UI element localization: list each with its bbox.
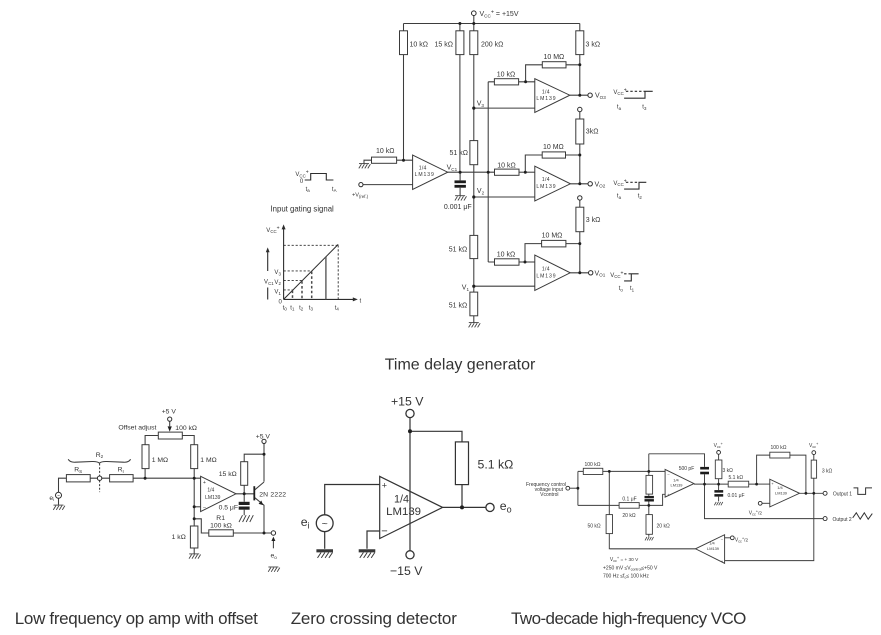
svg-text:LM139: LM139 bbox=[671, 483, 683, 488]
svg-text:20 kΩ: 20 kΩ bbox=[622, 513, 635, 519]
svg-text:VO3: VO3 bbox=[595, 93, 606, 100]
svg-text:tA: tA bbox=[332, 187, 337, 193]
svg-text:RS: RS bbox=[74, 467, 82, 474]
svg-text:+5 V: +5 V bbox=[256, 433, 271, 440]
svg-text:t4: t4 bbox=[335, 305, 340, 311]
svg-text:51 kΩ: 51 kΩ bbox=[449, 247, 467, 254]
svg-text:500 pF: 500 pF bbox=[679, 466, 695, 472]
svg-text:10 kΩ: 10 kΩ bbox=[376, 148, 394, 155]
svg-text:Time delay generator: Time delay generator bbox=[385, 356, 536, 373]
svg-text:10 kΩ: 10 kΩ bbox=[497, 251, 515, 258]
svg-text:RI: RI bbox=[118, 467, 124, 474]
svg-text:100 kΩ: 100 kΩ bbox=[585, 462, 601, 468]
svg-text:15 kΩ: 15 kΩ bbox=[219, 471, 237, 478]
svg-text:t0: t0 bbox=[283, 305, 288, 311]
svg-text:VC1: VC1 bbox=[447, 165, 458, 172]
svg-text:V1: V1 bbox=[462, 285, 470, 292]
svg-text:t2: t2 bbox=[638, 194, 643, 200]
svg-text:t1: t1 bbox=[290, 305, 295, 311]
svg-text:t2: t2 bbox=[299, 305, 304, 311]
svg-text:50 kΩ: 50 kΩ bbox=[587, 523, 600, 529]
svg-text:V3: V3 bbox=[477, 101, 485, 108]
svg-text:3 kΩ: 3 kΩ bbox=[586, 217, 601, 224]
svg-text:VO2: VO2 bbox=[595, 181, 606, 188]
svg-text:3 kΩ: 3 kΩ bbox=[586, 42, 601, 49]
svg-text:1/4: 1/4 bbox=[542, 89, 550, 95]
svg-text:VCC+: VCC+ bbox=[610, 270, 623, 279]
svg-text:VCC+: VCC+ bbox=[266, 225, 279, 234]
svg-text:15 kΩ: 15 kΩ bbox=[435, 42, 453, 49]
svg-text:1/4: 1/4 bbox=[542, 266, 550, 272]
svg-text:1/4: 1/4 bbox=[419, 165, 427, 171]
svg-text:700 Hz ≤fo≤ 100 kHz: 700 Hz ≤fo≤ 100 kHz bbox=[603, 574, 649, 580]
svg-text:0.1 μF: 0.1 μF bbox=[622, 496, 636, 502]
svg-text:Low frequency op amp with offs: Low frequency op amp with offset bbox=[15, 609, 258, 628]
svg-text:51 kΩ: 51 kΩ bbox=[449, 302, 467, 309]
svg-text:10 MΩ: 10 MΩ bbox=[542, 232, 563, 239]
svg-text:10 MΩ: 10 MΩ bbox=[544, 54, 565, 61]
svg-text:1/4: 1/4 bbox=[207, 487, 214, 493]
svg-text:100 kΩ: 100 kΩ bbox=[210, 522, 232, 529]
svg-text:+V(ref.): +V(ref.) bbox=[352, 193, 369, 199]
svg-text:1/4: 1/4 bbox=[709, 541, 715, 546]
svg-text:−15 V: −15 V bbox=[390, 564, 423, 578]
svg-text:Vcc+/2: Vcc+/2 bbox=[749, 508, 763, 516]
svg-text:~: ~ bbox=[57, 494, 60, 500]
svg-text:VCC+: VCC+ bbox=[613, 178, 626, 187]
svg-text:200 kΩ: 200 kΩ bbox=[481, 42, 503, 49]
svg-text:LM139: LM139 bbox=[386, 506, 421, 518]
svg-text:V2: V2 bbox=[477, 188, 485, 195]
svg-text:20 kΩ: 20 kΩ bbox=[657, 523, 670, 529]
svg-text:Vcc+: Vcc+ bbox=[809, 441, 819, 449]
svg-text:LM139: LM139 bbox=[536, 273, 556, 279]
svg-text:Vcontrol: Vcontrol bbox=[540, 492, 558, 498]
svg-text:+15 V: +15 V bbox=[391, 394, 424, 408]
svg-text:Input gating signal: Input gating signal bbox=[271, 205, 335, 214]
svg-text:Vcc+: Vcc+ bbox=[714, 441, 724, 449]
svg-text:t: t bbox=[360, 298, 362, 304]
svg-text:1/4: 1/4 bbox=[394, 493, 409, 505]
svg-text:51 kΩ: 51 kΩ bbox=[450, 150, 468, 157]
svg-text:V2: V2 bbox=[274, 280, 281, 286]
svg-text:LM139: LM139 bbox=[775, 491, 787, 496]
svg-text:Zero crossing detector: Zero crossing detector bbox=[291, 609, 458, 628]
svg-text:5.1 kΩ: 5.1 kΩ bbox=[729, 475, 744, 481]
svg-text:LM139: LM139 bbox=[707, 546, 719, 551]
svg-text:Output 2: Output 2 bbox=[833, 517, 852, 523]
svg-text:10 kΩ: 10 kΩ bbox=[410, 42, 428, 49]
svg-text:100 kΩ: 100 kΩ bbox=[175, 425, 197, 432]
svg-text:LM139: LM139 bbox=[205, 495, 221, 501]
svg-text:+: + bbox=[771, 481, 774, 486]
svg-text:1/4: 1/4 bbox=[542, 177, 550, 183]
svg-text:eo: eo bbox=[500, 499, 512, 515]
svg-text:LM139: LM139 bbox=[536, 96, 556, 102]
svg-text:ta: ta bbox=[306, 187, 311, 193]
svg-text:V3: V3 bbox=[274, 270, 281, 276]
svg-text:eo: eo bbox=[271, 553, 278, 560]
svg-text:ei: ei bbox=[301, 515, 310, 531]
svg-text:VO1: VO1 bbox=[595, 270, 606, 277]
svg-text:Vcc+/2: Vcc+/2 bbox=[735, 535, 749, 543]
svg-text:VC1: VC1 bbox=[264, 280, 274, 286]
svg-text:Output 1: Output 1 bbox=[833, 492, 852, 498]
svg-text:VCC+: VCC+ bbox=[295, 170, 308, 179]
svg-text:LM139: LM139 bbox=[536, 184, 556, 190]
svg-text:0.5 μF: 0.5 μF bbox=[219, 505, 238, 512]
svg-text:1/4: 1/4 bbox=[777, 485, 783, 490]
svg-text:1 kΩ: 1 kΩ bbox=[172, 534, 186, 541]
svg-text:R1: R1 bbox=[216, 515, 225, 522]
svg-text:–: – bbox=[721, 536, 724, 541]
svg-text:Two-decade high-frequency VCO: Two-decade high-frequency VCO bbox=[511, 609, 746, 628]
svg-text:3 kΩ: 3 kΩ bbox=[723, 468, 734, 474]
svg-text:ei: ei bbox=[49, 495, 54, 502]
svg-text:–: – bbox=[203, 505, 206, 511]
svg-text:−: − bbox=[381, 525, 387, 537]
svg-text:+: + bbox=[203, 480, 206, 486]
svg-text:1 MΩ: 1 MΩ bbox=[200, 457, 216, 464]
svg-text:Vcc+ = + 30 V: Vcc+ = + 30 V bbox=[610, 555, 639, 563]
svg-text:1 MΩ: 1 MΩ bbox=[152, 457, 168, 464]
svg-text:ta: ta bbox=[617, 105, 622, 111]
svg-text:+5 V: +5 V bbox=[162, 409, 177, 416]
svg-text:0: 0 bbox=[300, 179, 304, 185]
svg-text:2N 2222: 2N 2222 bbox=[259, 491, 286, 498]
svg-text:t3: t3 bbox=[309, 305, 314, 311]
svg-text:LM139: LM139 bbox=[415, 172, 435, 178]
svg-text:10 kΩ: 10 kΩ bbox=[497, 72, 515, 79]
svg-text:t3: t3 bbox=[642, 105, 647, 111]
svg-text:10 kΩ: 10 kΩ bbox=[497, 162, 515, 169]
svg-text:Offset adjust: Offset adjust bbox=[118, 424, 156, 431]
svg-text:10 MΩ: 10 MΩ bbox=[543, 144, 564, 151]
svg-text:V1: V1 bbox=[274, 290, 281, 296]
svg-text:VCC+ = +15V: VCC+ = +15V bbox=[480, 9, 519, 18]
svg-text:0.01 μF: 0.01 μF bbox=[728, 493, 745, 499]
svg-text:100 kΩ: 100 kΩ bbox=[771, 445, 787, 451]
svg-text:3kΩ: 3kΩ bbox=[586, 129, 599, 136]
svg-text:+250 mV ≤Vcontrol≤+50 V: +250 mV ≤Vcontrol≤+50 V bbox=[603, 566, 658, 572]
svg-text:~: ~ bbox=[322, 518, 328, 530]
svg-text:+: + bbox=[382, 481, 387, 491]
svg-text:ta: ta bbox=[617, 194, 622, 200]
svg-text:0.001 μF: 0.001 μF bbox=[444, 204, 472, 211]
svg-text:t1: t1 bbox=[630, 286, 635, 292]
svg-text:VCC+: VCC+ bbox=[613, 87, 626, 96]
svg-text:3 kΩ: 3 kΩ bbox=[822, 469, 833, 475]
svg-text:to: to bbox=[619, 286, 624, 292]
svg-text:5.1 kΩ: 5.1 kΩ bbox=[478, 458, 514, 472]
svg-text:R2: R2 bbox=[96, 452, 104, 459]
